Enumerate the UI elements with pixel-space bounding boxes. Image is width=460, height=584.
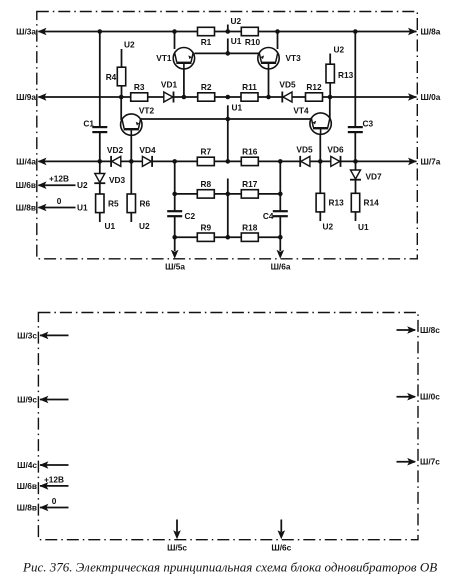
node mid rail / R4-VT2 xyxy=(119,95,124,100)
svg-text:R18: R18 xyxy=(242,222,258,232)
node R8 row left xyxy=(172,192,177,197)
resistor R16 xyxy=(241,146,258,165)
wire R4 top stub to U2 xyxy=(121,49,123,67)
svg-text:Ш/0с: Ш/0с xyxy=(420,392,440,402)
wire C3 branch xyxy=(354,32,356,127)
svg-text:C4: C4 xyxy=(263,211,274,221)
svg-text:Ш/9а: Ш/9а xyxy=(16,92,36,102)
svg-text:U1: U1 xyxy=(232,102,243,112)
svg-text:Ш/8с: Ш/8с xyxy=(420,325,440,335)
wire VT1-VT3 emitter line xyxy=(195,52,260,54)
svg-text:R13: R13 xyxy=(338,70,354,80)
node low rail / C3-VD7 xyxy=(353,159,358,164)
svg-text:R4: R4 xyxy=(106,72,117,82)
wire VT4 base xyxy=(319,134,321,161)
diode VD5 upper xyxy=(279,80,296,103)
pin Sh/8c xyxy=(397,325,441,335)
svg-text:VT4: VT4 xyxy=(293,106,309,116)
node mid rail / VT3 base xyxy=(266,95,271,100)
pin Sh/6v lower +12V xyxy=(17,474,69,491)
pin Sh/5a output arrow xyxy=(174,237,176,251)
wire VT2 base xyxy=(130,135,132,162)
wire VT1 base xyxy=(183,68,185,97)
svg-text:Ш/5с: Ш/5с xyxy=(167,543,187,553)
pin Sh/9c xyxy=(17,395,68,405)
svg-text:Ш/9с: Ш/9с xyxy=(17,395,37,405)
resistor R8 xyxy=(197,179,214,198)
wire lower rail / net Sh4a-Sh7a xyxy=(39,160,417,162)
svg-text:Ш/3а: Ш/3а xyxy=(16,27,36,37)
node low rail / U1 stub xyxy=(226,159,231,164)
pin Sh/5c down arrow xyxy=(176,520,178,533)
svg-text:U2: U2 xyxy=(139,221,150,231)
svg-text:Ш/6а: Ш/6а xyxy=(271,262,291,272)
svg-text:Ш/4с: Ш/4с xyxy=(17,460,37,470)
svg-text:0: 0 xyxy=(52,496,57,506)
node U2 stub at R1-R10 xyxy=(227,25,229,32)
node U1 stub to emitter line xyxy=(227,39,229,54)
svg-text:+12В: +12В xyxy=(44,474,64,484)
svg-text:Ш/4а: Ш/4а xyxy=(16,156,36,166)
svg-text:VT3: VT3 xyxy=(286,53,302,63)
pin Sh/0a xyxy=(408,92,441,102)
pin Sh/7c xyxy=(397,457,441,467)
wire VT1 collector xyxy=(174,32,176,50)
wire R9-R18 row xyxy=(175,236,281,238)
svg-text:R5: R5 xyxy=(108,198,119,208)
svg-text:U2: U2 xyxy=(77,180,88,190)
svg-text:Ш/8в: Ш/8в xyxy=(17,503,37,513)
svg-text:R16: R16 xyxy=(242,146,258,156)
wire VT2-VT4 emitter line xyxy=(141,118,311,120)
svg-text:Ш/5а: Ш/5а xyxy=(165,262,185,272)
resistor R5 xyxy=(99,183,101,194)
resistor R13 upper xyxy=(326,64,354,83)
resistor R10 xyxy=(241,27,260,47)
resistor R6 xyxy=(130,161,132,194)
svg-text:R8: R8 xyxy=(200,179,211,189)
svg-text:R17: R17 xyxy=(242,179,258,189)
node low rail / ladder left xyxy=(172,159,177,164)
node mid rail / VT1 base xyxy=(182,95,187,100)
pin Sh/8a xyxy=(408,27,441,37)
node R9 row mid xyxy=(226,235,231,240)
svg-text:U1: U1 xyxy=(77,203,88,213)
node top rail / C1 xyxy=(98,29,103,34)
svg-text:C1: C1 xyxy=(83,119,94,129)
node top rail / VT1 collector xyxy=(172,29,177,34)
svg-text:Ш/6в: Ш/6в xyxy=(17,481,37,491)
node top rail / U2 stub xyxy=(226,29,231,34)
pin Sh/3c xyxy=(17,330,68,340)
node U1 stub middle ladder xyxy=(227,105,229,161)
pin Sh/4c xyxy=(17,460,68,470)
svg-text:R12: R12 xyxy=(306,82,322,92)
node R8 row right xyxy=(278,192,283,197)
node low rail / VT2 base xyxy=(129,159,134,164)
top module boundary (dash-dot frame) xyxy=(37,12,418,259)
pin Sh/6a output arrow xyxy=(279,237,281,251)
svg-text:Ш/0а: Ш/0а xyxy=(421,92,441,102)
node low rail / ladder right xyxy=(278,159,283,164)
svg-text:VT1: VT1 xyxy=(156,53,172,63)
svg-text:U1: U1 xyxy=(358,222,369,232)
pin Sh/8v lower 0V xyxy=(17,496,69,513)
svg-text:R13: R13 xyxy=(329,198,345,208)
pin Sh/6v +12V supply stub to U2 xyxy=(16,174,88,191)
svg-text:U2: U2 xyxy=(231,16,242,26)
svg-text:R1: R1 xyxy=(201,37,212,47)
svg-text:R9: R9 xyxy=(200,222,211,232)
wire ladder mid vertical U1 xyxy=(227,179,229,238)
svg-text:C3: C3 xyxy=(363,119,374,129)
node R9 row right xyxy=(278,235,283,240)
resistor R11 xyxy=(241,82,258,101)
svg-text:Ш/8в: Ш/8в xyxy=(16,203,36,213)
svg-text:VD6: VD6 xyxy=(327,145,344,155)
capacitor C1 xyxy=(83,119,107,133)
transistor VT1 xyxy=(156,48,194,70)
diode VD6 xyxy=(327,145,344,167)
node R8 row mid xyxy=(226,192,231,197)
resistor R14 xyxy=(355,180,357,194)
wire R8-R17 row xyxy=(175,193,281,195)
node low rail / C1-VD3 xyxy=(98,159,103,164)
transistor VT4 xyxy=(293,106,331,135)
resistor R13 lower xyxy=(319,161,321,194)
svg-text:VD5: VD5 xyxy=(279,80,296,90)
svg-text:R10: R10 xyxy=(245,37,261,47)
wire R13 top stub to U2 xyxy=(329,54,331,65)
wire VT3 collector xyxy=(277,32,279,50)
svg-text:U1: U1 xyxy=(105,221,116,231)
pin Sh/6c down arrow xyxy=(280,520,282,533)
pin Sh/8v 0V supply stub to U1 xyxy=(16,196,88,213)
resistor R3 xyxy=(131,82,148,101)
svg-text:R2: R2 xyxy=(201,82,212,92)
svg-text:Ш/7а: Ш/7а xyxy=(421,157,441,167)
svg-text:R6: R6 xyxy=(140,198,151,208)
wire C1 branch xyxy=(99,32,101,127)
bottom module boundary (dash-dot frame) xyxy=(38,313,418,540)
node top rail / C3 xyxy=(353,29,358,34)
wire VT3 base xyxy=(268,68,270,97)
resistor R18 xyxy=(241,222,258,241)
wire ladder right vertical xyxy=(279,161,281,210)
svg-text:R7: R7 xyxy=(200,146,211,156)
svg-text:R3: R3 xyxy=(134,82,145,92)
diode VD5 lower xyxy=(296,145,313,167)
diode VD4 xyxy=(139,145,156,167)
resistor R9 xyxy=(197,222,214,241)
node mid rail / R13-VT4 xyxy=(328,95,333,100)
svg-text:VD3: VD3 xyxy=(109,175,126,185)
svg-text:VT2: VT2 xyxy=(139,106,155,116)
resistor R4 xyxy=(106,67,126,86)
svg-text:VD4: VD4 xyxy=(139,145,156,155)
pin Sh/9a xyxy=(16,92,46,102)
capacitor C2 xyxy=(167,211,195,221)
svg-text:C2: C2 xyxy=(185,211,196,221)
svg-text:Рис. 376. Электрическая принци: Рис. 376. Электрическая принципиальная с… xyxy=(22,560,437,575)
svg-text:U1: U1 xyxy=(231,36,242,46)
resistor R7 xyxy=(197,146,214,165)
wire middle rail / net Sh9a-Sh0a xyxy=(39,96,417,98)
capacitor C3 xyxy=(348,119,374,133)
node low rail / VT4 base xyxy=(318,159,323,164)
node R9 row left xyxy=(172,235,177,240)
resistor R12 xyxy=(306,82,323,101)
svg-text:U2: U2 xyxy=(323,222,334,232)
svg-text:VD2: VD2 xyxy=(107,145,124,155)
wire VT2 collector xyxy=(120,97,122,120)
resistor R17 xyxy=(241,179,258,198)
diode VD1 xyxy=(161,80,178,103)
svg-text:0: 0 xyxy=(57,196,62,206)
transistor VT3 xyxy=(258,48,301,70)
svg-text:Ш/3с: Ш/3с xyxy=(17,330,37,340)
svg-text:Ш/6с: Ш/6с xyxy=(271,543,291,553)
node mid rail / U1 xyxy=(226,95,231,100)
diode VD2 xyxy=(107,145,124,167)
pin Sh/4a xyxy=(16,156,46,166)
svg-text:VD7: VD7 xyxy=(366,172,383,182)
svg-text:U2: U2 xyxy=(334,45,345,55)
svg-text:VD1: VD1 xyxy=(161,80,178,90)
pin Sh/3a xyxy=(16,27,46,37)
resistor R2 xyxy=(198,82,215,101)
resistor R1 xyxy=(198,27,215,47)
svg-text:Ш/8а: Ш/8а xyxy=(421,27,441,37)
svg-text:U2: U2 xyxy=(124,40,135,50)
svg-text:R11: R11 xyxy=(242,82,257,92)
svg-text:R14: R14 xyxy=(364,198,380,208)
diode VD7 xyxy=(355,161,357,170)
node emitter line / U1 stub xyxy=(226,51,231,56)
wire ladder left vertical xyxy=(174,161,176,210)
wire VT4 collector xyxy=(329,97,331,119)
capacitor C4 xyxy=(263,211,288,221)
wire top rail / net Sh3a-Sh8a xyxy=(39,31,417,33)
node emitter line 2 / U1 stub xyxy=(226,117,231,122)
svg-text:+12В: +12В xyxy=(49,174,69,184)
transistor VT2 xyxy=(121,106,155,136)
svg-text:VD5: VD5 xyxy=(296,145,313,155)
node top rail / VT3 collector xyxy=(275,29,280,34)
svg-text:Ш/7с: Ш/7с xyxy=(420,457,440,467)
pin Sh/7a xyxy=(408,157,441,167)
diode VD3 xyxy=(99,161,101,173)
svg-text:Ш/6в: Ш/6в xyxy=(16,180,36,190)
pin Sh/0c xyxy=(397,392,441,402)
